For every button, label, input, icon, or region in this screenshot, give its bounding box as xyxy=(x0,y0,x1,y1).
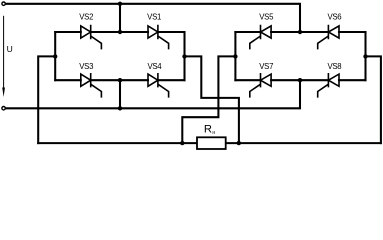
wire left bridge right bus xyxy=(183,32,185,80)
svg-text:VS7: VS7 xyxy=(259,62,273,71)
wire B1 right bus to load right xyxy=(185,56,239,143)
node B2 left bus xyxy=(233,54,237,58)
wire top supply xyxy=(6,4,300,32)
wire right bridge top row xyxy=(235,31,365,33)
thyristor VS1 xyxy=(148,25,169,50)
wire right bridge left bus xyxy=(234,32,236,80)
wire left bridge bottom mid drop xyxy=(119,80,121,108)
svg-text:VS5: VS5 xyxy=(259,12,274,21)
terminal bottom left xyxy=(2,107,5,110)
wire left bridge top row xyxy=(55,31,184,33)
svg-text:VS2: VS2 xyxy=(79,12,93,21)
thyristor VS2 xyxy=(81,25,102,50)
svg-text:VS4: VS4 xyxy=(147,62,162,71)
svg-text:VS3: VS3 xyxy=(79,62,93,71)
node right bridge top mid xyxy=(298,30,302,34)
node load left xyxy=(180,141,184,145)
terminal top left xyxy=(2,2,5,5)
svg-text:VS6: VS6 xyxy=(327,12,341,21)
wire bottom supply xyxy=(6,80,300,108)
node B2 right bus xyxy=(363,54,367,58)
node bottom supply mid xyxy=(118,106,122,110)
node left bridge bottom mid xyxy=(118,78,122,82)
node right bridge bottom mid xyxy=(298,78,302,82)
wire load bottom xyxy=(38,142,381,144)
node B1 right bus xyxy=(182,54,186,58)
svg-text:н: н xyxy=(212,130,215,136)
svg-text:VS1: VS1 xyxy=(147,12,161,21)
wire B2 left bus to load left xyxy=(182,56,235,143)
node left bus jog xyxy=(53,54,57,58)
node left bridge top mid xyxy=(118,30,122,34)
thyristor VS3 xyxy=(81,73,102,98)
resistor R box xyxy=(197,137,226,149)
node top mid xyxy=(118,2,122,6)
U voltage arrow xyxy=(3,16,5,90)
thyristor VS8 xyxy=(318,73,339,98)
svg-text:U: U xyxy=(7,44,13,54)
svg-text:VS8: VS8 xyxy=(327,62,341,71)
wire left bridge left bus xyxy=(54,32,56,80)
wire left bus jog to load xyxy=(38,56,55,143)
wire left bridge top mid drop xyxy=(119,4,121,32)
thyristor VS4 xyxy=(148,73,169,98)
thyristor VS7 xyxy=(250,73,271,98)
wire right bridge bottom row xyxy=(235,79,365,81)
wire left bridge bottom row xyxy=(55,79,184,81)
thyristor VS6 xyxy=(318,25,339,50)
wire right bridge right bus xyxy=(364,32,366,80)
thyristor VS5 xyxy=(250,25,271,50)
wire B2 right bus jog down xyxy=(366,56,381,143)
node load right xyxy=(237,141,241,145)
svg-text:R: R xyxy=(204,124,212,136)
